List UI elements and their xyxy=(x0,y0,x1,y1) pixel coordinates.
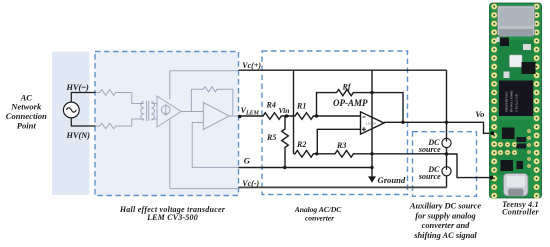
svg-text:Controller: Controller xyxy=(502,207,539,216)
pin hole centers xyxy=(493,5,538,196)
ground symbol xyxy=(368,176,376,182)
svg-text:source: source xyxy=(418,145,441,154)
caption: Auxiliary DC source xyxy=(409,202,481,240)
hall cell arrow xyxy=(165,104,167,115)
svg-text:Point: Point xyxy=(17,121,37,131)
yellow pad grid xyxy=(498,142,517,155)
svg-text:LM 358: LM 358 xyxy=(366,122,376,126)
wire G row xyxy=(239,167,373,169)
wire hall amp to output amp xyxy=(181,111,203,113)
svg-text:LEM CV3-500: LEM CV3-500 xyxy=(146,213,198,222)
small ICs mid right xyxy=(517,137,527,142)
svg-text:MIMXRT1062: MIMXRT1062 xyxy=(505,91,509,112)
resistor R5 vertical xyxy=(282,116,289,168)
DC source 1 circle xyxy=(442,138,451,147)
svg-text:source: source xyxy=(418,172,441,181)
svg-text:DVJ6A 1M88B: DVJ6A 1M88B xyxy=(510,90,514,112)
svg-text:HV(N): HV(N) xyxy=(66,131,91,140)
tiny passives xyxy=(497,37,500,42)
svg-text:Vc(+): Vc(+) xyxy=(242,61,261,70)
svg-text:‹: ‹ xyxy=(507,110,514,112)
svg-text:HV(~): HV(~) xyxy=(66,83,89,92)
AC source xyxy=(63,102,79,118)
svg-text:for supply analog: for supply analog xyxy=(415,211,476,220)
vertical wire Vc(+) to R2 xyxy=(293,70,295,154)
Teensy connection dots xyxy=(490,131,495,179)
pin holes left column xyxy=(491,4,497,199)
transformer secondary coil xyxy=(151,102,154,121)
svg-text:R5: R5 xyxy=(266,133,276,142)
svg-text:G: G xyxy=(244,155,251,165)
output amplifier triangle xyxy=(203,103,229,130)
svg-text:OP-AMP: OP-AMP xyxy=(333,98,368,108)
feedback Rf path xyxy=(317,90,404,123)
caption: Analog AC/DC converter xyxy=(294,205,343,223)
svg-text:Vc(-): Vc(-) xyxy=(242,179,259,188)
junction dots xyxy=(238,91,448,169)
DC chain vertical xyxy=(446,70,448,187)
micro USB xyxy=(504,174,529,197)
main chip MIMXRT1062 xyxy=(499,81,533,117)
svg-text:shifting AC signal: shifting AC signal xyxy=(413,231,477,240)
Hall effect transducer box xyxy=(95,52,239,196)
flash chip xyxy=(501,160,514,171)
oscillator white xyxy=(510,55,523,67)
op-amp plus sign xyxy=(362,127,366,131)
inner hole column xyxy=(527,129,531,168)
svg-text:R1: R1 xyxy=(296,102,306,111)
transformer core xyxy=(147,101,149,121)
small component below SD left xyxy=(500,38,509,47)
pin holes right column xyxy=(534,4,540,199)
PHY chip xyxy=(522,62,536,74)
plus input wire xyxy=(317,129,360,154)
svg-text:VLEM: VLEM xyxy=(241,106,260,117)
AC network connection panel xyxy=(52,52,90,196)
Analog AC/DC converter box xyxy=(262,51,408,195)
Teensy 4.1 board xyxy=(490,3,542,199)
wire DC mid branch to Teensy xyxy=(447,154,493,178)
gray lower supply path xyxy=(170,119,239,189)
label DC source 2 xyxy=(418,165,441,181)
DC source 2 circle xyxy=(442,167,451,176)
SD card slot xyxy=(498,6,535,36)
svg-text:Vo: Vo xyxy=(475,109,484,119)
svg-text:R4: R4 xyxy=(266,101,276,110)
gray input resistor top xyxy=(96,90,144,104)
gray feedback path xyxy=(191,87,232,116)
wire Vc(-) row xyxy=(239,186,447,188)
svg-text:R2: R2 xyxy=(296,140,306,149)
caption: Teensy 4.1 Controller xyxy=(502,200,539,217)
DC source 1 tick xyxy=(446,139,448,142)
transducer internals (gray) xyxy=(96,71,239,189)
transformer primary coil xyxy=(141,102,144,121)
wire R2 R3 row xyxy=(294,151,447,158)
label DC source 1 xyxy=(418,138,441,154)
caption: Hall effect voltage transducer xyxy=(119,205,226,222)
wire Vc(+) rail xyxy=(239,69,447,71)
gray input resistor bottom xyxy=(96,119,144,129)
op-amp supply vertical through xyxy=(371,70,373,177)
transformer to hall amp stubs xyxy=(151,104,157,120)
svg-text:Vin: Vin xyxy=(279,106,290,115)
output wire Vo xyxy=(384,122,493,133)
op-amp U1 triangle xyxy=(361,112,385,134)
wire AC top to transducer xyxy=(71,93,95,103)
svg-text:Auxiliary DC source: Auxiliary DC source xyxy=(409,202,481,211)
hall amplifier triangle xyxy=(157,96,181,127)
svg-text:Ground: Ground xyxy=(378,175,406,185)
svg-text:converter: converter xyxy=(305,214,335,223)
small white part xyxy=(504,72,510,79)
gray G path xyxy=(192,123,238,168)
svg-text:converter and: converter and xyxy=(422,221,470,230)
gray supply rail top xyxy=(170,71,239,99)
svg-text:R3: R3 xyxy=(336,141,346,150)
wire VLEM row with R4 and R1 xyxy=(239,113,361,120)
wire AC bottom to transducer xyxy=(71,118,95,126)
Auxiliary DC source box xyxy=(413,132,477,197)
svg-text:Rf: Rf xyxy=(342,82,352,91)
DC source 2 tick xyxy=(446,167,448,170)
gray wire to VLEM edge xyxy=(229,115,238,117)
chip below left xyxy=(502,128,515,140)
label: AC Network Connection Point xyxy=(6,92,47,130)
hall cell circle xyxy=(162,106,171,115)
svg-text:CTAA2115D: CTAA2115D xyxy=(515,93,519,112)
op-amp minus sign xyxy=(363,116,366,118)
